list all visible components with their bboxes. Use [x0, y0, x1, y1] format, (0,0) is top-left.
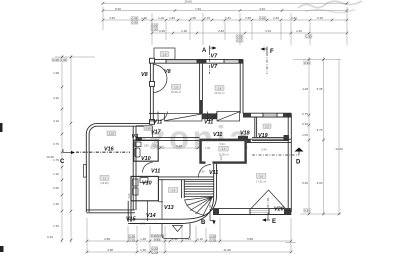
room V4	[132, 126, 153, 140]
middle wall band with closets	[149, 111, 240, 121]
right dimension columns	[293, 57, 343, 215]
svg-text:0.30: 0.30	[132, 20, 138, 24]
svg-text:4.48: 4.48	[302, 87, 308, 91]
chimney block top	[154, 48, 175, 59]
svg-text:9.00: 9.00	[317, 181, 323, 185]
svg-text:10.00: 10.00	[184, 0, 192, 4]
svg-text:D: D	[296, 160, 301, 166]
svg-text:0.98: 0.98	[145, 127, 151, 131]
right wall of V7	[240, 59, 243, 113]
svg-text:5.88: 5.88	[247, 237, 253, 241]
svg-text:10.38: 10.38	[46, 155, 54, 159]
svg-text:1.48: 1.48	[140, 248, 146, 252]
svg-text:1.86: 1.86	[190, 16, 196, 20]
svg-text:5.94: 5.94	[261, 148, 267, 152]
svg-text:1.81: 1.81	[225, 16, 231, 20]
svg-text:B: B	[201, 220, 206, 226]
svg-text:V7: V7	[211, 64, 219, 70]
svg-text:2.82: 2.82	[218, 29, 224, 33]
svg-text:1.10: 1.10	[53, 172, 59, 176]
svg-text:1.58: 1.58	[245, 16, 251, 20]
winder steps fan	[184, 197, 212, 217]
V20 room	[180, 139, 291, 223]
room V7	[211, 54, 225, 96]
svg-text:5.40: 5.40	[302, 181, 308, 185]
svg-text:1.05: 1.05	[302, 133, 308, 137]
right exterior wall	[288, 113, 291, 212]
svg-text:17.31 m²: 17.31 m²	[256, 180, 266, 184]
svg-text:1.75: 1.75	[53, 158, 59, 162]
svg-text:0.30: 0.30	[152, 250, 158, 254]
svg-text:F: F	[270, 49, 274, 55]
svg-text:1.1: 1.1	[103, 176, 107, 180]
section marker B	[201, 198, 216, 226]
svg-text:0.30: 0.30	[129, 238, 135, 242]
section marker A	[202, 46, 217, 75]
bottom dimension row 1	[86, 234, 293, 242]
top wall of right wing	[243, 113, 291, 117]
svg-text:4.10: 4.10	[53, 96, 59, 100]
svg-text:0.23: 0.23	[237, 38, 243, 42]
bottom dimension row 2	[86, 246, 293, 254]
section marker F	[261, 47, 275, 75]
svg-text:5.94: 5.94	[219, 142, 225, 146]
hall V11 small	[143, 163, 161, 175]
svg-text:E: E	[272, 219, 276, 225]
closet 1	[165, 114, 203, 121]
upper-left exterior wall	[150, 58, 155, 124]
svg-text:V20: V20	[274, 207, 284, 213]
svg-text:3.10: 3.10	[53, 119, 59, 123]
svg-text:(14.40): (14.40)	[100, 181, 108, 185]
bottom extension lines	[87, 218, 296, 253]
section marker C	[60, 149, 130, 165]
svg-text:1.48: 1.48	[141, 16, 147, 20]
svg-text:V11: V11	[213, 132, 222, 138]
WC V10 lower	[127, 176, 158, 200]
svg-text:V18: V18	[240, 131, 250, 137]
svg-text:0.55: 0.55	[53, 186, 59, 190]
svg-text:1.6: 1.6	[218, 86, 222, 90]
svg-text:0.30: 0.30	[304, 61, 310, 65]
svg-text:1.30: 1.30	[53, 202, 59, 206]
svg-text:1.50: 1.50	[140, 136, 146, 140]
room V8	[141, 65, 181, 95]
svg-text:2.40: 2.40	[273, 16, 279, 20]
svg-text:V15: V15	[126, 217, 137, 223]
svg-text:0.33: 0.33	[47, 235, 53, 239]
svg-text:0.30: 0.30	[152, 27, 158, 31]
svg-text:V13: V13	[164, 205, 174, 211]
svg-text:0.30: 0.30	[302, 122, 308, 126]
svg-text:8.46: 8.46	[115, 7, 121, 11]
svg-text:0.30: 0.30	[61, 58, 67, 62]
svg-text:V10: V10	[142, 181, 152, 187]
svg-text:V8: V8	[164, 69, 171, 75]
svg-text:3.48: 3.48	[176, 144, 182, 148]
top dimension row 2	[102, 7, 349, 12]
window top V7	[224, 60, 239, 62]
radiator on left wall	[83, 165, 86, 178]
svg-text:0.30: 0.30	[210, 238, 216, 242]
svg-text:1.10: 1.10	[197, 237, 203, 241]
svg-text:1.98: 1.98	[53, 71, 59, 75]
top dimension row 1	[102, 0, 349, 5]
svg-text:0.90: 0.90	[159, 29, 165, 33]
svg-text:V11: V11	[151, 169, 160, 175]
svg-text:0.82: 0.82	[291, 16, 297, 20]
top extension lines	[103, 7, 347, 45]
svg-text:2.18: 2.18	[109, 132, 115, 136]
svg-text:5.35: 5.35	[317, 87, 323, 91]
top dimension row 4	[151, 29, 349, 43]
svg-text:1.80: 1.80	[143, 144, 149, 148]
svg-text:V16: V16	[104, 147, 115, 153]
svg-text:3.98: 3.98	[107, 248, 113, 252]
corridor bottom wall	[136, 135, 289, 141]
svg-text:14.30: 14.30	[335, 147, 343, 151]
svg-text:V7: V7	[211, 54, 219, 60]
svg-text:1.00: 1.00	[150, 136, 156, 140]
svg-text:V8: V8	[141, 72, 148, 78]
svg-text:A: A	[202, 48, 207, 54]
svg-text:2.0: 2.0	[259, 174, 263, 178]
svg-text:2.15: 2.15	[204, 16, 210, 20]
rounded corner to bottom	[180, 196, 214, 224]
V20 left wall lower	[213, 164, 215, 196]
svg-text:C: C	[60, 159, 65, 165]
svg-text:V14: V14	[146, 213, 156, 219]
door arcs into corridor	[158, 112, 217, 121]
room V13	[159, 179, 178, 219]
svg-text:0.75: 0.75	[53, 142, 59, 146]
svg-text:1.48: 1.48	[140, 237, 146, 241]
svg-text:16.70 m²: 16.70 m²	[214, 91, 224, 95]
closet 2	[217, 111, 240, 121]
svg-text:0.60: 0.60	[154, 238, 160, 242]
svg-text:11.98: 11.98	[223, 248, 231, 252]
top exterior wall	[149, 59, 243, 63]
rooms V15 / V14	[126, 201, 182, 226]
svg-text:2.40: 2.40	[296, 29, 302, 33]
edge marks	[0, 123, 3, 132]
wall between V18 and V19	[255, 117, 257, 138]
svg-text:15.60 m²: 15.60 m²	[171, 90, 181, 94]
wall between V8 and V7	[200, 63, 203, 113]
svg-text:0.30: 0.30	[317, 16, 323, 20]
svg-text:3.93: 3.93	[219, 155, 223, 161]
V19 tag	[263, 124, 271, 129]
inner core room (dark walls)	[198, 139, 246, 177]
svg-text:0.75: 0.75	[302, 112, 308, 116]
svg-text:3.33: 3.33	[265, 29, 271, 33]
svg-text:1.75: 1.75	[140, 222, 146, 226]
svg-text:3.98: 3.98	[104, 237, 110, 241]
svg-text:V4: V4	[132, 134, 139, 140]
svg-text:V11: V11	[204, 120, 213, 126]
entrance porch below	[162, 224, 190, 239]
bathroom V10 upper	[134, 136, 158, 162]
corridor labels	[151, 120, 268, 140]
svg-text:V19: V19	[258, 133, 268, 139]
section marker E	[262, 198, 276, 225]
hall dim line	[159, 144, 200, 150]
svg-text:V10: V10	[141, 156, 151, 162]
V16 labels and tags	[100, 131, 116, 185]
svg-text:0.30: 0.30	[306, 34, 312, 38]
svg-text:1.33: 1.33	[53, 224, 59, 228]
gable lines	[251, 190, 286, 209]
big room bottom wall	[86, 210, 135, 213]
left dimension columns	[46, 55, 95, 243]
svg-text:4.93: 4.93	[259, 7, 265, 11]
svg-text:1.00: 1.00	[205, 146, 211, 150]
svg-text:1.5: 1.5	[174, 85, 178, 89]
svg-text:1.5: 1.5	[163, 52, 167, 56]
bottom wall	[213, 208, 291, 210]
svg-text:7.94: 7.94	[195, 7, 201, 11]
svg-text:5.75: 5.75	[317, 128, 323, 132]
staircase	[159, 177, 214, 217]
svg-text:0.86: 0.86	[260, 16, 266, 20]
big room V16: top wall with rounded corner	[86, 123, 150, 212]
svg-text:0.30: 0.30	[304, 208, 310, 212]
svg-text:1.3: 1.3	[171, 188, 175, 192]
dark pier	[202, 113, 217, 119]
svg-text:1.86: 1.86	[169, 16, 175, 20]
svg-text:1.9: 1.9	[265, 125, 269, 129]
big room right wall	[133, 126, 136, 210]
svg-text:0.30: 0.30	[53, 58, 59, 62]
window top V8	[166, 60, 197, 62]
svg-text:1.80: 1.80	[152, 144, 158, 148]
svg-text:3.45: 3.45	[109, 16, 115, 20]
top dimension row 3	[102, 16, 349, 32]
svg-text:1.46: 1.46	[158, 16, 164, 20]
svg-text:1.7: 1.7	[222, 147, 226, 151]
svg-text:2.18: 2.18	[181, 29, 187, 33]
section marker D	[252, 148, 304, 166]
svg-text:2.05: 2.05	[127, 193, 131, 199]
dark stub left of V18	[238, 136, 248, 141]
svg-text:V11: V11	[153, 120, 162, 126]
